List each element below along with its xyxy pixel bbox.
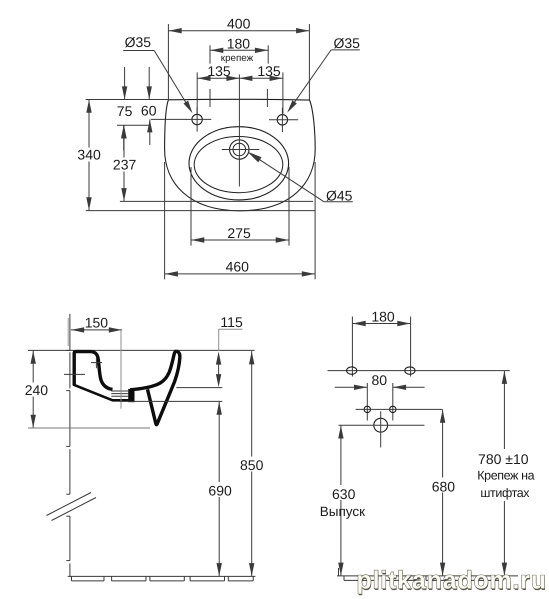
hidden drain lines (111, 391, 128, 396)
svg-text:крепеж: крепеж (221, 53, 254, 64)
outlet circle (374, 418, 388, 432)
label Ø35 left with leader (123, 34, 192, 113)
left hole crosshair (151, 107, 211, 131)
dimension 690 (207, 401, 232, 576)
svg-text:275: 275 (227, 225, 251, 241)
dimension 780 (477, 371, 533, 576)
label Krepezh na shtiftah (477, 468, 534, 499)
label 115 with leader (216, 314, 243, 387)
svg-text:plitkanadom.ru: plitkanadom.ru (357, 567, 547, 595)
outlet crosshair (339, 411, 425, 447)
fixing hole left (347, 367, 357, 374)
svg-text:240: 240 (25, 382, 49, 398)
overflow cross mark (91, 357, 102, 368)
reference line y125 (117, 124, 150, 126)
svg-text:237: 237 (113, 157, 137, 173)
dimension 75 (117, 67, 133, 151)
wall inner grey line (67, 318, 69, 346)
drain hole Ø45 circles (230, 140, 249, 159)
wall line (66, 314, 70, 577)
tap hole right Ø35 (277, 115, 287, 125)
dimension 180 back view (352, 308, 410, 376)
wall break symbol (47, 493, 97, 521)
svg-text:180: 180 (227, 35, 251, 51)
svg-text:680: 680 (432, 479, 456, 495)
right hole crosshair (269, 108, 298, 132)
svg-text:штифтах: штифтах (480, 486, 530, 500)
label Ø45 with leader (247, 152, 352, 204)
reference line y401.4 (outlet) (120, 400, 223, 402)
svg-text:400: 400 (227, 16, 251, 32)
dimension 135 right (239, 63, 283, 114)
reference line y428 (28, 427, 150, 429)
svg-text:460: 460 (226, 259, 250, 275)
reference line y201 (120, 200, 313, 202)
label krepezh (221, 53, 254, 64)
svg-text:340: 340 (77, 146, 101, 162)
svg-text:Ø35: Ø35 (333, 35, 360, 51)
svg-text:630: 630 (332, 486, 356, 502)
drain axis extension line (120, 330, 122, 409)
dimension 850 (240, 351, 265, 576)
washbasin top-view outline (165, 99, 316, 211)
label Vypusk (320, 504, 365, 519)
svg-text:135: 135 (257, 63, 281, 79)
reference line y210 (86, 210, 315, 212)
wall fixing cross mark (64, 373, 85, 375)
top reference edge line (86, 99, 169, 101)
svg-text:Ø35: Ø35 (125, 34, 152, 50)
floor line back view (337, 568, 518, 580)
drain centreline horizontal (222, 149, 259, 151)
basin bowl inner rim (194, 137, 283, 193)
dimension 680 (430, 409, 456, 576)
fixing hole right (405, 367, 415, 374)
fixing holes line (328, 370, 510, 372)
dimension 400 (168, 16, 309, 100)
dimension 460 (165, 162, 316, 279)
vertical centre axis (238, 75, 240, 187)
fixing stud tick left (209, 89, 211, 107)
drain stack block (128, 389, 134, 402)
svg-text:115: 115 (220, 314, 243, 330)
dimension 340 (77, 99, 101, 210)
svg-text:Крепеж на: Крепеж на (477, 468, 534, 482)
svg-text:150: 150 (85, 314, 109, 330)
stud hole right (390, 406, 396, 412)
svg-text:Ø45: Ø45 (326, 188, 353, 204)
front apron and outlet V (148, 351, 180, 425)
svg-text:690: 690 (208, 483, 232, 499)
label Ø35 right with leader (287, 35, 360, 113)
rim reference line (28, 349, 255, 351)
dimension 180 (fixing) (210, 35, 268, 63)
basin bowl outer rim (189, 127, 289, 200)
svg-text:180: 180 (371, 308, 395, 324)
dimension 60 (141, 67, 157, 145)
svg-text:850: 850 (240, 457, 264, 473)
dimension 237 (113, 125, 137, 201)
svg-text:Выпуск: Выпуск (320, 504, 365, 519)
reference line y387.6 (176, 387, 222, 389)
svg-text:60: 60 (141, 102, 157, 118)
dimension 135 left (197, 63, 283, 114)
basin profile inner back wall (92, 352, 113, 390)
basin profile outer contour (73, 352, 129, 401)
dimension 150 (71, 314, 122, 332)
fixing stud tick right (266, 89, 268, 107)
stud holes line (356, 408, 443, 410)
basin floor and front wall (130, 351, 177, 390)
dimension 240 (22, 350, 49, 428)
svg-text:75: 75 (117, 103, 133, 119)
dimension 630 (329, 425, 356, 576)
floor line side view (68, 576, 256, 581)
svg-text:135: 135 (207, 63, 231, 79)
stud hole left (364, 406, 370, 412)
dimension 275 (191, 167, 289, 246)
svg-text:780 ±10: 780 ±10 (478, 451, 529, 467)
watermark plitkanadom.ru (357, 567, 548, 596)
tap hole left Ø35 (192, 114, 202, 124)
svg-text:80: 80 (372, 372, 388, 388)
dimension 80 (335, 372, 425, 420)
